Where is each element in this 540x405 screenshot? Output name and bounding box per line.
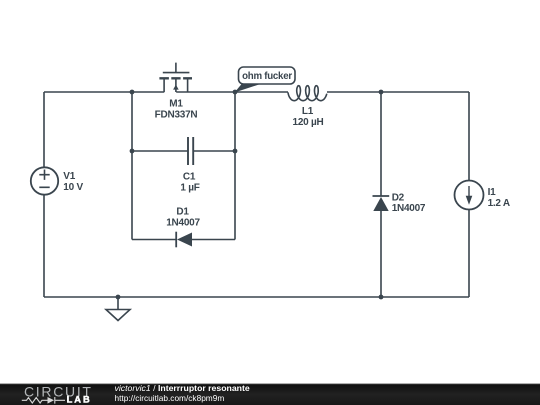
svg-text:10 V: 10 V bbox=[63, 182, 83, 193]
svg-text:D2: D2 bbox=[392, 193, 405, 204]
svg-text:I1: I1 bbox=[488, 187, 497, 198]
svg-text:120 µH: 120 µH bbox=[293, 117, 324, 128]
svg-text:1N4007: 1N4007 bbox=[392, 203, 426, 214]
svg-text:1N4007: 1N4007 bbox=[166, 218, 200, 229]
svg-text:victorvic1 / Interrruptor reso: victorvic1 / Interrruptor resonante bbox=[115, 383, 250, 393]
svg-text:LAB: LAB bbox=[67, 395, 92, 405]
svg-text:L1: L1 bbox=[302, 106, 314, 117]
svg-text:ohm fucker: ohm fucker bbox=[242, 71, 292, 82]
svg-text:1 µF: 1 µF bbox=[180, 183, 199, 194]
svg-text:1.2 A: 1.2 A bbox=[488, 198, 510, 209]
svg-text:V1: V1 bbox=[63, 171, 75, 182]
svg-text:M1: M1 bbox=[169, 99, 183, 110]
svg-text:C1: C1 bbox=[183, 172, 196, 183]
svg-text:FDN337N: FDN337N bbox=[155, 110, 198, 121]
svg-text:http://circuitlab.com/ck8pm9m: http://circuitlab.com/ck8pm9m bbox=[115, 393, 225, 403]
svg-text:D1: D1 bbox=[176, 207, 189, 218]
